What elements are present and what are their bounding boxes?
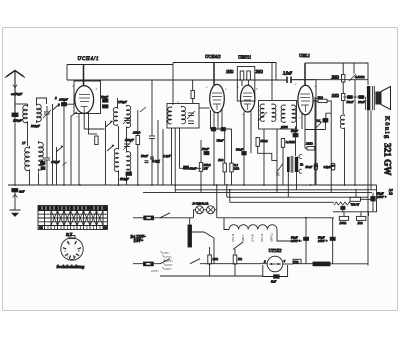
wire (83, 113, 85, 129)
circle component (196, 206, 204, 214)
wire (343, 212, 345, 217)
cathode resistor tube4 (307, 147, 315, 150)
resistor boxes power (208, 255, 212, 264)
wire (84, 128, 104, 130)
wire (29, 173, 31, 185)
wire (349, 74, 356, 81)
thick bar resistor (313, 262, 330, 266)
osc switch arrows (106, 121, 113, 185)
wire (209, 264, 211, 276)
wire (118, 126, 120, 147)
circle component (267, 256, 283, 272)
capacitor blob (371, 197, 375, 201)
osc trimmer (123, 116, 131, 124)
wire (38, 173, 40, 185)
wire (217, 112, 219, 129)
capacitor blob (348, 96, 353, 99)
wire (304, 63, 306, 86)
wire (227, 196, 368, 198)
svg-text:5Ω: 5Ω (238, 257, 243, 261)
wire (250, 111, 252, 154)
resistor boxes below tube2 (199, 163, 202, 172)
wire (208, 207, 214, 213)
cap blob bottom of osc (126, 172, 132, 175)
wire (182, 106, 186, 124)
wire (56, 147, 58, 185)
component group (212, 93, 222, 110)
wire (180, 167, 202, 169)
svg-text:UBL1: UBL1 (299, 53, 310, 58)
svg-text:UCH4: UCH4 (260, 234, 264, 242)
junction (305, 217, 307, 219)
resistor box (357, 216, 366, 220)
wire (330, 263, 369, 265)
wire (151, 139, 153, 186)
resistor box (233, 255, 237, 264)
wire (355, 189, 357, 198)
wire (161, 252, 166, 269)
wire (13, 194, 18, 197)
wire (342, 210, 344, 212)
wire (361, 198, 372, 200)
capacitor blob (359, 96, 364, 99)
svg-text:1MΩ: 1MΩ (306, 142, 313, 146)
svg-text:König: König (384, 116, 391, 140)
svg-text:UY1N2: UY1N2 (269, 248, 283, 253)
svg-text:Ta: Ta (300, 163, 303, 167)
wire (189, 218, 191, 225)
wire (269, 263, 281, 265)
heater switch (233, 242, 243, 250)
wire (342, 63, 344, 75)
wire (140, 107, 146, 112)
wire (199, 107, 210, 109)
component group (188, 121, 194, 124)
resistor box (281, 139, 284, 148)
resistor left of tube2 (191, 91, 194, 99)
svg-text:50nF: 50nF (291, 129, 299, 133)
svg-text:2kΩ: 2kΩ (358, 221, 364, 225)
wire (332, 218, 334, 264)
wire to coil L1 (15, 103, 28, 105)
svg-text:300V +: 300V + (318, 239, 328, 243)
svg-text:1MΩ: 1MΩ (332, 94, 340, 98)
component group (56, 146, 63, 152)
svg-text:50kΩ: 50kΩ (261, 139, 269, 143)
plate bus H3 (67, 79, 368, 81)
component group (62, 98, 67, 185)
caps blobs left tuned (41, 162, 46, 165)
wire (89, 133, 98, 135)
svg-text:Sockelschaltung: Sockelschaltung (57, 264, 85, 269)
svg-text:150pF: 150pF (13, 119, 23, 123)
svg-text:320pF: 320pF (31, 124, 41, 128)
field coil right (340, 115, 344, 130)
resistor box (230, 163, 233, 172)
cap at 206,153 (204, 152, 209, 155)
wire (192, 99, 194, 104)
capacitor blob (41, 167, 45, 170)
heater chain (229, 225, 277, 230)
wire (353, 63, 355, 74)
wire (210, 110, 212, 129)
svg-text:50nF: 50nF (306, 165, 313, 169)
tube envelope (75, 86, 94, 114)
wire (197, 207, 203, 213)
wire (234, 264, 236, 276)
wire (313, 101, 331, 193)
tube envelope (298, 85, 313, 115)
wire (231, 172, 233, 185)
electrolytics bottom (304, 237, 309, 240)
wire (157, 120, 159, 185)
wire (137, 145, 139, 186)
wire (263, 265, 288, 277)
tube1 shield box (74, 81, 101, 114)
wire (213, 112, 215, 185)
wire (354, 80, 356, 185)
wire (301, 113, 303, 129)
wire (127, 150, 131, 177)
coil L3 lower (25, 146, 30, 173)
component group (79, 95, 90, 114)
svg-text:50nF: 50nF (347, 100, 355, 104)
svg-text:10nF: 10nF (358, 100, 366, 104)
IF transformer 2 (259, 101, 297, 130)
component group (63, 241, 81, 259)
resistor box (247, 71, 251, 80)
component group (64, 241, 80, 259)
coil L4 lower (39, 141, 44, 172)
svg-text:UBF11: UBF11 (270, 233, 274, 242)
wire (160, 275, 263, 277)
svg-text:200Ω: 200Ω (340, 221, 348, 225)
antenna (5, 71, 25, 114)
svg-text:170pF: 170pF (118, 100, 128, 104)
svg-text:50pF: 50pF (101, 95, 109, 99)
wire (126, 176, 128, 186)
wire (367, 111, 369, 266)
wire (200, 263, 268, 265)
svg-text:110V=: 110V= (134, 239, 144, 243)
wire (63, 162, 67, 166)
wire (27, 124, 29, 146)
wire (334, 202, 352, 205)
wire (381, 87, 391, 110)
svg-text:240V~: 240V~ (164, 267, 172, 271)
svg-text:2kΩ: 2kΩ (318, 96, 324, 100)
cap 50nF below tube2 (211, 128, 215, 131)
svg-text:2MΩ: 2MΩ (256, 70, 264, 74)
2.5nF feed line (271, 79, 273, 81)
wire (127, 105, 131, 128)
mains switch S (160, 213, 170, 218)
svg-text:Wd./W: Wd./W (351, 202, 360, 206)
wire (373, 86, 375, 110)
voltage taps (151, 251, 173, 273)
svg-text:2: 2 (55, 96, 57, 100)
svg-text:520pF: 520pF (120, 177, 130, 181)
wire (194, 209, 217, 211)
svg-text:UCH4/2: UCH4/2 (205, 54, 221, 59)
wire (229, 190, 231, 203)
wire (271, 63, 273, 101)
wire (263, 129, 265, 185)
wire (194, 210, 217, 218)
IF transformer 1 box (167, 104, 199, 129)
wire (372, 193, 374, 197)
wire (282, 147, 284, 185)
wire (14, 192, 16, 210)
wire (192, 232, 215, 238)
svg-text:2MΩ: 2MΩ (332, 76, 340, 80)
svg-text:6nF: 6nF (19, 190, 25, 194)
tube envelope (241, 85, 255, 112)
svg-text:220V~: 220V~ (151, 269, 159, 273)
wire (221, 108, 223, 128)
wire (281, 105, 285, 123)
wire (200, 171, 202, 192)
wire (179, 128, 181, 168)
component group (243, 93, 252, 110)
wire (248, 80, 250, 86)
wire (126, 128, 128, 150)
wire (292, 105, 296, 123)
junction (226, 184, 228, 186)
wire (272, 104, 276, 122)
tube socket (61, 238, 83, 260)
mains wire 2 (133, 263, 160, 265)
vertical x71 (71, 112, 77, 185)
svg-text:St.V.: St.V. (66, 233, 73, 237)
svg-text:50nF: 50nF (202, 147, 210, 151)
2.5nF series cap (287, 77, 291, 84)
H2 plate line tube4 (305, 63, 368, 85)
circle component (207, 206, 215, 214)
resistor box (293, 259, 301, 263)
wire (175, 189, 377, 191)
small caps cluster symbols (145, 157, 161, 163)
svg-text:50nF: 50nF (190, 167, 198, 171)
svg-text:ca.50pF: ca.50pF (11, 92, 23, 96)
wire (137, 110, 139, 136)
capacitor blob (330, 237, 335, 240)
svg-text:50nF: 50nF (141, 154, 149, 158)
wire (260, 104, 264, 122)
wire (305, 129, 325, 131)
AF transformer Ta (258, 146, 304, 197)
svg-text:321 GW: 321 GW (383, 143, 393, 176)
resistor box (350, 197, 361, 201)
wire (10, 210, 21, 216)
component group (107, 145, 114, 151)
wire (234, 249, 236, 255)
main buses (8, 184, 377, 186)
capacitor blob (242, 152, 246, 155)
resistor box (339, 216, 348, 220)
capacitor blob (323, 119, 328, 123)
svg-text:17Ω: 17Ω (293, 260, 299, 264)
wire (162, 129, 164, 185)
wire (295, 126, 297, 156)
wire (190, 259, 200, 264)
wire (314, 97, 316, 185)
wire (371, 86, 373, 110)
resistor box (342, 94, 345, 101)
capacitor blob (274, 275, 280, 278)
capacitor 50pF antenna (12, 113, 18, 185)
wire (171, 128, 173, 185)
svg-text:UBL1: UBL1 (241, 234, 245, 242)
wire (168, 107, 172, 124)
speaker lead wire (370, 111, 372, 190)
circle component (278, 263, 280, 265)
osc coils upper (113, 107, 117, 126)
svg-text:UCH4/1: UCH4/1 (78, 57, 100, 62)
bus drop to mains (216, 185, 218, 210)
wire (320, 122, 322, 124)
wire (143, 192, 372, 194)
svg-text:2000: 2000 (281, 125, 288, 129)
junction (216, 184, 218, 186)
resistor box small left (95, 136, 98, 145)
component group (149, 136, 155, 139)
feedback arrow + cap (317, 122, 322, 128)
wire (360, 212, 362, 217)
wire (209, 247, 211, 255)
wire (258, 112, 267, 121)
wire (372, 201, 374, 212)
resistor box (69, 236, 75, 239)
svg-text:470pF: 470pF (51, 160, 61, 164)
wire (243, 112, 245, 186)
junction dots bus1 (14, 184, 356, 186)
Koenig 321 GW text (383, 116, 393, 176)
cap at 186,168 (184, 166, 189, 169)
wire (117, 98, 119, 107)
svg-text:2W: 2W (204, 167, 209, 171)
wire (83, 65, 85, 87)
wire (342, 101, 344, 115)
drop at x=173 (172, 63, 174, 106)
svg-text:UBF11: UBF11 (238, 55, 251, 60)
barretter (188, 225, 192, 247)
switch block (38, 206, 108, 230)
wire (118, 173, 120, 185)
caps at tube1 right (103, 99, 109, 108)
wire (64, 103, 74, 105)
wire (200, 140, 202, 163)
svg-text:5nF: 5nF (271, 280, 276, 284)
wire (333, 211, 377, 213)
verticals into bus (174, 184, 176, 186)
component group (187, 111, 195, 119)
wire (304, 115, 306, 148)
switch S1 arrows (53, 104, 60, 185)
wire (213, 238, 215, 264)
wire (342, 82, 344, 94)
wire top of L2 (37, 98, 47, 104)
svg-text:UCH4: UCH4 (231, 234, 235, 242)
svg-text:17: 17 (22, 141, 26, 145)
20k resistor + 200pF cap column (136, 136, 140, 145)
tube1 bottom wires (78, 113, 80, 185)
wire (46, 168, 48, 185)
wire (344, 129, 346, 185)
wire (46, 122, 48, 150)
svg-text:50nF: 50nF (236, 148, 244, 152)
6nF ground chain (12, 189, 18, 192)
svg-text:1kΩ: 1kΩ (213, 257, 219, 261)
svg-text:1kΩ: 1kΩ (218, 158, 224, 162)
resistor box (223, 163, 226, 172)
wire (301, 263, 313, 265)
svg-text:300V +: 300V + (291, 239, 301, 243)
mains wire 1 (133, 217, 334, 219)
svg-text:UY1N: UY1N (250, 234, 254, 242)
wire (276, 129, 278, 193)
resistor box (240, 71, 244, 80)
svg-text:3: 3 (58, 103, 60, 107)
wire (324, 122, 326, 129)
wire (174, 128, 176, 193)
wire (368, 212, 370, 216)
bus drops (226, 185, 228, 197)
pin number speckles (72, 83, 317, 123)
trimmer caps left (43, 106, 51, 122)
speaker (375, 92, 381, 105)
capacitor blob (144, 262, 154, 266)
wire (211, 128, 232, 130)
svg-text:1MΩ: 1MΩ (226, 70, 234, 74)
coil L2 (37, 103, 42, 123)
wire (224, 218, 302, 241)
capacitor blob (341, 206, 345, 209)
svg-text:MΩ: MΩ (233, 167, 240, 171)
junction (229, 189, 231, 191)
grid bus H1 (67, 63, 276, 80)
wire (151, 80, 153, 136)
component group (44, 150, 50, 168)
capacitor blob (293, 134, 298, 137)
wire (160, 259, 170, 264)
tube envelope (210, 84, 225, 112)
output transformer (367, 86, 370, 110)
coil L1 (23, 104, 28, 124)
right column resistors (342, 75, 345, 83)
bypass caps mid right (306, 163, 335, 170)
svg-text:75nF: 75nF (217, 139, 225, 143)
component group (300, 94, 310, 112)
circle component (271, 263, 273, 265)
resistor box (237, 67, 255, 102)
wire (213, 63, 215, 86)
top right power parts (230, 201, 334, 203)
osc coils lower (114, 147, 118, 174)
wire (88, 112, 90, 134)
resistor box (318, 99, 327, 102)
component group (231, 233, 273, 242)
fuse F1 (144, 216, 154, 220)
resistor boxes below IF2 (256, 138, 259, 147)
wire (376, 185, 378, 212)
wire (292, 80, 317, 185)
svg-text:300V +: 300V + (377, 195, 387, 199)
wire (224, 172, 226, 185)
wire (241, 80, 243, 86)
component group (123, 142, 131, 150)
wire (192, 80, 194, 91)
